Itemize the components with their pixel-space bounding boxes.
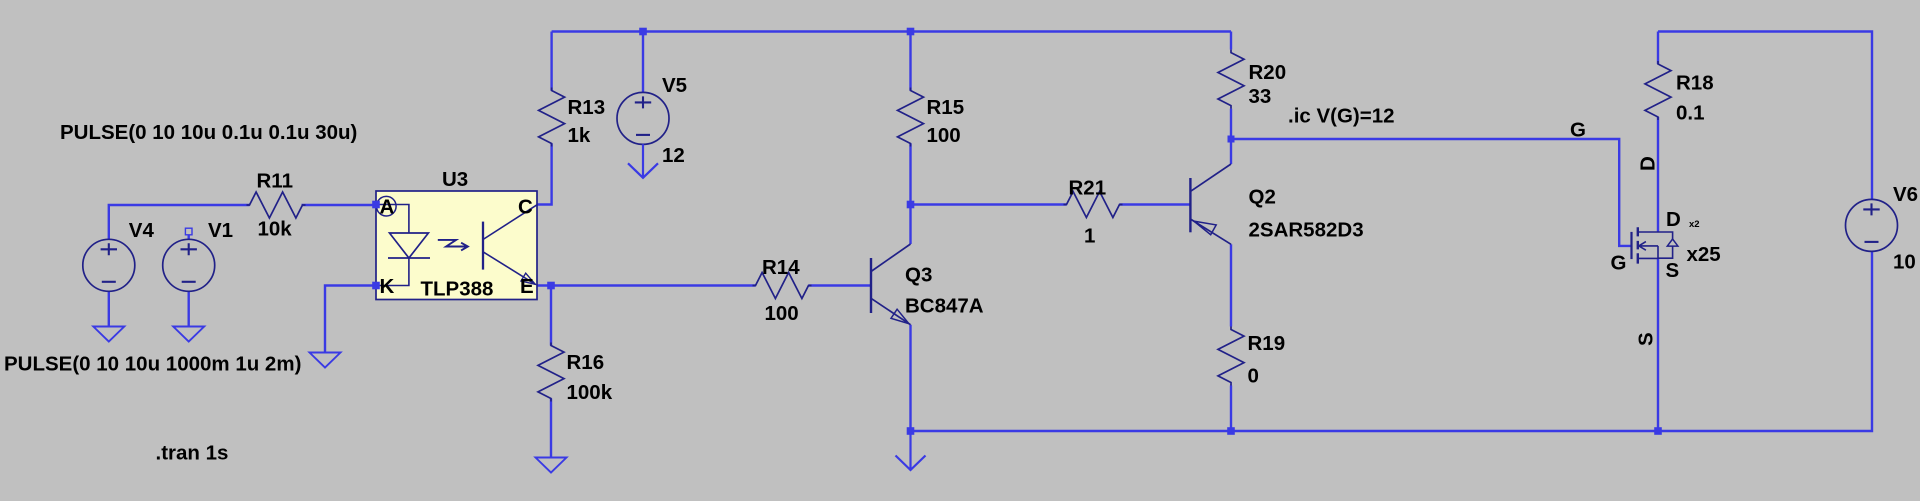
svg-text:R21: R21 bbox=[1069, 177, 1107, 200]
mosfet source stub bbox=[1638, 257, 1658, 259]
resistor R20 bbox=[1218, 50, 1244, 109]
svg-text:Q3: Q3 bbox=[905, 264, 932, 287]
U3 light arrow bbox=[438, 240, 468, 251]
svg-text:R13: R13 bbox=[568, 96, 606, 119]
junction R15/R21/Q3 node bbox=[907, 201, 915, 209]
wire V5 plus to top rail bbox=[642, 32, 644, 94]
transistor Q2 base bar bbox=[1189, 178, 1191, 232]
junction top rail R15 bbox=[907, 28, 915, 36]
svg-text:V1: V1 bbox=[208, 219, 233, 242]
svg-text:33: 33 bbox=[1249, 85, 1272, 108]
transistor Q3 emitter bbox=[871, 298, 911, 324]
svg-text:U3: U3 bbox=[442, 168, 468, 191]
svg-text:100k: 100k bbox=[567, 381, 613, 404]
svg-text:C: C bbox=[518, 195, 533, 218]
svg-text:E: E bbox=[520, 275, 534, 298]
svg-text:V5: V5 bbox=[662, 74, 687, 97]
wire V4 top to R11 bbox=[109, 205, 250, 240]
wire R16 to ground bbox=[550, 399, 552, 459]
svg-text:R18: R18 bbox=[1676, 72, 1714, 95]
svg-text:G: G bbox=[1570, 119, 1586, 142]
unconnected pin marker V1 bbox=[185, 228, 192, 235]
resistor R13 bbox=[539, 88, 565, 147]
junction R20/Q2/G node bbox=[1228, 136, 1235, 143]
wire node to gate G bbox=[1231, 139, 1631, 246]
svg-text:V6: V6 bbox=[1893, 183, 1918, 206]
svg-text:x2: x2 bbox=[1689, 219, 1700, 230]
wire R20 bottom to node bbox=[1230, 109, 1232, 139]
svg-text:1k: 1k bbox=[568, 124, 591, 147]
voltage source V1 bbox=[163, 239, 215, 291]
svg-text:0: 0 bbox=[1248, 365, 1259, 388]
svg-text:100: 100 bbox=[765, 302, 799, 325]
U3 LED diode bbox=[388, 233, 430, 258]
resistor R11 bbox=[247, 192, 306, 218]
svg-text:0.1: 0.1 bbox=[1676, 102, 1705, 125]
mosfet body diode triangle bbox=[1667, 239, 1678, 246]
wire V1 to ground bbox=[187, 291, 189, 327]
wire V4 to ground bbox=[108, 291, 110, 327]
U3 phototransistor bar bbox=[482, 222, 484, 270]
ground U3 cathode bbox=[310, 353, 341, 368]
mosfet body arrow bbox=[1639, 242, 1658, 259]
wire Q3 emitter down bbox=[909, 325, 911, 431]
svg-text:V4: V4 bbox=[129, 219, 155, 242]
transistor Q3 base bar bbox=[870, 258, 872, 313]
ground V4 bbox=[93, 327, 124, 342]
svg-text:A: A bbox=[380, 195, 395, 218]
wire R11 to U3 pin A bbox=[302, 204, 377, 206]
svg-text:12: 12 bbox=[662, 144, 685, 167]
wire Q3 collector bbox=[909, 205, 911, 245]
junction E node bbox=[547, 282, 555, 290]
transistor Q3 emitter arrow bbox=[891, 309, 909, 323]
wire bottom rail bbox=[911, 251, 1873, 431]
transistor Q2 collector bbox=[1190, 164, 1231, 191]
svg-text:R14: R14 bbox=[762, 256, 800, 279]
wire R14 to Q3 base bbox=[809, 284, 872, 286]
U3 cathode lead bbox=[376, 258, 409, 286]
resistor R19 bbox=[1218, 327, 1244, 386]
wire R13 to top rail bbox=[550, 32, 552, 91]
U3 emitter arrowhead bbox=[521, 273, 535, 284]
junction top rail V5 bbox=[639, 28, 647, 36]
resistor R14 bbox=[753, 273, 812, 299]
resistor R16 bbox=[538, 343, 564, 402]
wire E node to R16 bbox=[550, 286, 552, 346]
svg-text:10: 10 bbox=[1893, 251, 1916, 274]
transistor Q2 emitter bbox=[1190, 219, 1231, 244]
junction bottom rail R19 bbox=[1227, 427, 1235, 435]
svg-text:R19: R19 bbox=[1248, 332, 1286, 355]
svg-text:Q2: Q2 bbox=[1249, 186, 1276, 209]
svg-text:R11: R11 bbox=[257, 170, 293, 193]
voltage source V5 bbox=[617, 92, 669, 144]
wire R15 bottom bbox=[909, 144, 911, 205]
wire Q2 collector to node bbox=[1230, 139, 1232, 164]
voltage source V4 bbox=[83, 239, 135, 291]
svg-text:x25: x25 bbox=[1687, 243, 1721, 266]
mosfet drain stub bbox=[1638, 231, 1658, 233]
wire U3 pin E to R14 bbox=[537, 284, 756, 286]
wire Q2 emitter to R19 bbox=[1230, 244, 1232, 326]
resistor R21 bbox=[1064, 192, 1123, 218]
svg-text:2SAR582D3: 2SAR582D3 bbox=[1249, 219, 1364, 242]
svg-text:S: S bbox=[1666, 259, 1680, 282]
svg-text:D: D bbox=[1637, 156, 1660, 171]
svg-text:PULSE(0 10 10u 1000m 1u 2m): PULSE(0 10 10u 1000m 1u 2m) bbox=[4, 353, 301, 376]
resistor R15 bbox=[898, 88, 924, 147]
wire R21 to Q2 base bbox=[1120, 203, 1191, 205]
opto-coupler U3 body bbox=[376, 191, 537, 300]
U3 pin circle A bbox=[377, 196, 397, 216]
mosfet gate bar bbox=[1630, 232, 1632, 259]
mosfet body diode branch bbox=[1658, 232, 1673, 258]
svg-text:PULSE(0 10 10u 0.1u 0.1u 30u): PULSE(0 10 10u 0.1u 0.1u 30u) bbox=[60, 121, 357, 144]
wire R18 top bbox=[1657, 32, 1659, 65]
U3 anode lead bbox=[376, 205, 409, 234]
wire top right rail bbox=[1658, 32, 1872, 200]
wire top rail bbox=[552, 30, 1231, 32]
svg-text:D: D bbox=[1666, 208, 1681, 231]
U3 phototransistor emitter bbox=[483, 252, 535, 284]
pin K junction bbox=[372, 282, 380, 290]
ground arrow V5 bbox=[628, 144, 658, 178]
svg-text:TLP388: TLP388 bbox=[421, 278, 494, 301]
svg-text:.tran 1s: .tran 1s bbox=[156, 442, 229, 465]
resistor R18 bbox=[1645, 61, 1671, 120]
svg-text:S: S bbox=[1635, 332, 1658, 346]
svg-text:K: K bbox=[380, 275, 395, 298]
mosfet channel segments bbox=[1637, 227, 1639, 263]
wire mosfet source to bottom rail bbox=[1657, 258, 1659, 431]
transistor Q2 emitter arrow bbox=[1194, 221, 1216, 235]
svg-text:BC847A: BC847A bbox=[905, 295, 984, 318]
junction bottom rail mosfet source bbox=[1654, 427, 1662, 435]
wire R18 to mosfet drain bbox=[1657, 117, 1659, 232]
U3 phototransistor collector bbox=[483, 205, 537, 240]
svg-text:.ic V(G)=12: .ic V(G)=12 bbox=[1288, 105, 1395, 128]
wire R15 top bbox=[909, 32, 911, 91]
svg-text:R16: R16 bbox=[567, 351, 605, 374]
ground arrow bottom rail bbox=[896, 431, 926, 470]
voltage source V6 bbox=[1846, 199, 1898, 251]
svg-text:R20: R20 bbox=[1249, 61, 1287, 84]
transistor Q3 collector bbox=[871, 244, 911, 272]
svg-text:100: 100 bbox=[927, 124, 961, 147]
wire U3 pin C to R13 bbox=[537, 144, 552, 205]
ground V1 bbox=[173, 327, 204, 342]
wire node to R21 bbox=[911, 203, 1067, 205]
svg-text:R15: R15 bbox=[927, 96, 965, 119]
wire R19 to bottom rail bbox=[1230, 386, 1232, 432]
pin A junction bbox=[372, 201, 380, 209]
junction bottom rail Q3 emitter bbox=[907, 427, 915, 435]
wire R20 top to rail bbox=[1230, 32, 1232, 50]
svg-text:G: G bbox=[1611, 252, 1627, 275]
wire U3 pin K to ground bbox=[325, 286, 376, 354]
ground R16 bbox=[536, 458, 567, 473]
wire V1 top stub bbox=[187, 235, 189, 241]
svg-text:1: 1 bbox=[1084, 225, 1095, 248]
svg-text:10k: 10k bbox=[258, 218, 293, 241]
